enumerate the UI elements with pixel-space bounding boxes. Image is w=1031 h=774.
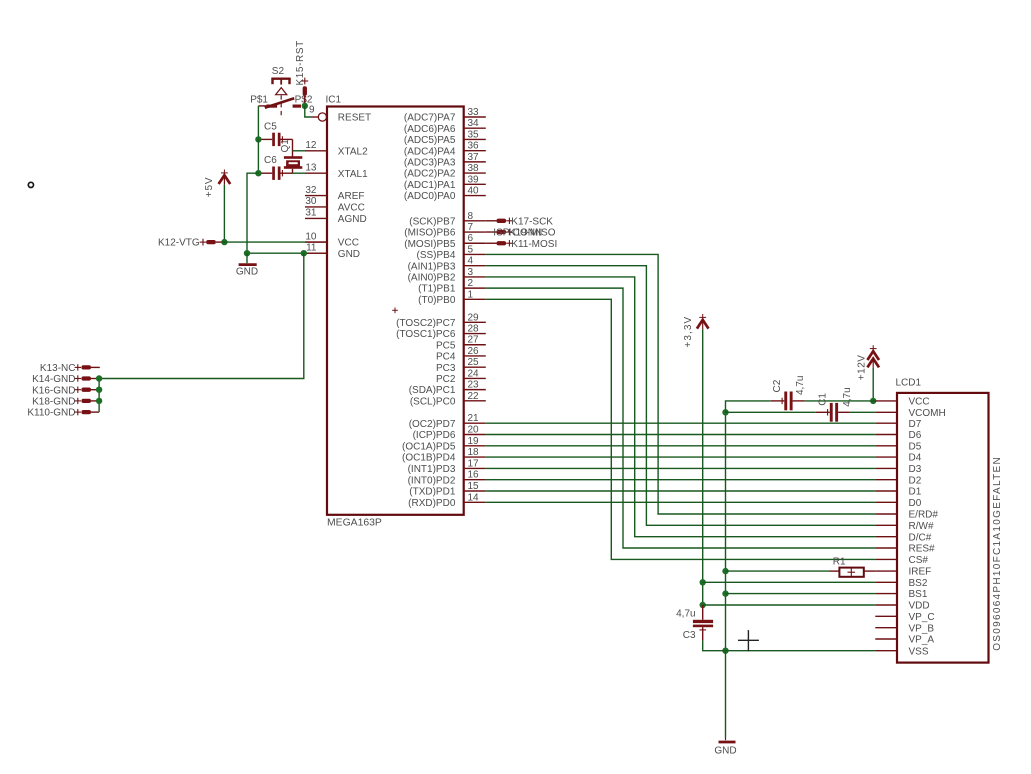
wire BS1 row bbox=[726, 593, 876, 595]
svg-text:BS1: BS1 bbox=[909, 589, 928, 600]
junction node K16 bbox=[96, 387, 102, 393]
svg-text:AVCC: AVCC bbox=[338, 203, 365, 214]
resistor R1 label bbox=[833, 556, 846, 567]
svg-text:R/W#: R/W# bbox=[909, 521, 934, 532]
svg-text:D2: D2 bbox=[909, 475, 922, 486]
svg-text:4,7u: 4,7u bbox=[676, 608, 695, 619]
wire VDD row bbox=[703, 604, 876, 606]
wire PD0 to LCD D0 bbox=[486, 501, 876, 503]
svg-text:(TOSC2)PC7: (TOSC2)PC7 bbox=[396, 318, 456, 329]
resistor R1 bbox=[839, 568, 863, 577]
pin lines K14/K16/K18/K110 bbox=[91, 379, 99, 413]
svg-text:(MISO)PB6: (MISO)PB6 bbox=[404, 228, 456, 239]
LCD1 pin stubs bbox=[875, 401, 897, 651]
svg-text:PC3: PC3 bbox=[436, 363, 456, 374]
svg-text:9: 9 bbox=[309, 105, 315, 116]
svg-text:VCC: VCC bbox=[338, 238, 359, 249]
svg-text:(ADC3)PA3: (ADC3)PA3 bbox=[404, 157, 456, 168]
svg-text:XTAL1: XTAL1 bbox=[338, 169, 368, 180]
svg-text:(SDA)PC1: (SDA)PC1 bbox=[409, 385, 456, 396]
svg-text:30: 30 bbox=[305, 196, 317, 207]
wire PD2 to LCD D2 bbox=[486, 479, 876, 481]
svg-text:E/RD#: E/RD# bbox=[909, 510, 939, 521]
capacitor C3 label bbox=[683, 630, 696, 641]
svg-text:+12V: +12V bbox=[856, 355, 867, 381]
svg-text:(ADC5)PA5: (ADC5)PA5 bbox=[404, 135, 456, 146]
wire XTAL2 bbox=[293, 150, 306, 152]
svg-text:R1: R1 bbox=[833, 556, 846, 567]
svg-text:C2: C2 bbox=[772, 379, 783, 392]
svg-text:D4: D4 bbox=[909, 453, 922, 464]
svg-text:VCC: VCC bbox=[909, 397, 930, 408]
svg-text:+3,3V: +3,3V bbox=[683, 316, 694, 348]
svg-text:VCOMH: VCOMH bbox=[909, 408, 946, 419]
svg-text:K11-MOSI: K11-MOSI bbox=[511, 239, 557, 250]
svg-text:(RXD)PD0: (RXD)PD0 bbox=[408, 498, 456, 509]
svg-text:VP_C: VP_C bbox=[909, 612, 935, 623]
wire C6 to GND rail bbox=[247, 173, 258, 253]
svg-text:D0: D0 bbox=[909, 498, 922, 509]
connector K12-VTG pin bbox=[206, 240, 221, 244]
svg-text:4,7u: 4,7u bbox=[842, 387, 853, 406]
wire PD7 to LCD D7 bbox=[486, 422, 876, 424]
svg-text:(TXD)PD1: (TXD)PD1 bbox=[409, 487, 456, 498]
wire IREF row bbox=[726, 570, 876, 572]
connector K15-RST label bbox=[295, 40, 306, 85]
wire PB3 to LCD R/W# bbox=[486, 266, 876, 526]
svg-text:13: 13 bbox=[305, 162, 317, 173]
connector K15-RST pin bbox=[303, 86, 307, 103]
capacitor C2 value 4,7u bbox=[795, 376, 806, 395]
svg-text:GND: GND bbox=[338, 249, 360, 260]
wire VCC row left segment bbox=[726, 401, 771, 412]
junction node C5-left bbox=[255, 136, 261, 142]
LCD1 value OS096064PH10FC1A10GEFALTEN bbox=[992, 456, 1003, 651]
svg-text:PC4: PC4 bbox=[436, 352, 456, 363]
capacitor C3 value 4,7u bbox=[676, 608, 695, 619]
wire BS2 row bbox=[703, 581, 876, 583]
capacitor C1 label bbox=[818, 393, 829, 406]
svg-text:Q1: Q1 bbox=[280, 139, 291, 153]
svg-text:(INT1)PD3: (INT1)PD3 bbox=[408, 464, 456, 475]
wire C1 to VCOMH pin bbox=[849, 411, 875, 413]
svg-text:(TOSC1)PC6: (TOSC1)PC6 bbox=[396, 329, 456, 340]
LCD module LCD1 box bbox=[896, 378, 989, 663]
connector labels K13/K14/K16/K18/K110 bbox=[27, 363, 75, 419]
LCD1 pin names bbox=[909, 397, 946, 658]
svg-text:PC5: PC5 bbox=[436, 340, 456, 351]
switch S2 left pin bbox=[258, 105, 266, 107]
junction node VSS bbox=[722, 648, 728, 654]
wire VSS row bbox=[726, 650, 876, 652]
junction node K14 bbox=[96, 375, 102, 381]
wire VCC row to pin 10 bbox=[221, 241, 327, 243]
svg-text:K12-VTG: K12-VTG bbox=[158, 238, 200, 249]
switch S2 pin P$1 label bbox=[250, 94, 268, 105]
junction node VCOMH bbox=[722, 409, 728, 415]
junction node +5V/VCC bbox=[221, 239, 227, 245]
IC1 left pin numbers bbox=[305, 105, 317, 254]
power +12V symbol bbox=[867, 345, 879, 368]
connector K11-MOSI label bbox=[511, 239, 557, 250]
svg-text:32: 32 bbox=[305, 185, 317, 196]
svg-text:(OC2)PD7: (OC2)PD7 bbox=[409, 419, 456, 430]
svg-text:K14-GND: K14-GND bbox=[32, 374, 75, 385]
switch S2 actuator dashed line bbox=[280, 95, 282, 116]
svg-text:(T0)PB0: (T0)PB0 bbox=[418, 295, 456, 306]
svg-text:OS096064PH10FC1A10GEFALTEN: OS096064PH10FC1A10GEFALTEN bbox=[992, 456, 1003, 651]
wire C3 to VSS row bbox=[703, 640, 726, 650]
svg-text:(SS)PB4: (SS)PB4 bbox=[416, 250, 455, 261]
switch S2 actuator triangle bbox=[276, 88, 287, 95]
wire K-GND bus vertical bbox=[98, 379, 100, 413]
capacitor C2 bbox=[771, 392, 805, 411]
capacitor C3 bbox=[693, 605, 713, 640]
connector K19-MISO origin cross bbox=[506, 229, 512, 235]
connector K11-MOSI pin bbox=[486, 241, 506, 245]
svg-text:(MOSI)PB5: (MOSI)PB5 bbox=[404, 239, 456, 250]
wire +5V down bbox=[223, 185, 225, 242]
svg-text:IC1: IC1 bbox=[326, 94, 342, 105]
svg-text:C1: C1 bbox=[818, 393, 829, 406]
svg-text:(AIN1)PB3: (AIN1)PB3 bbox=[408, 261, 456, 272]
svg-text:K16-GND: K16-GND bbox=[32, 385, 75, 396]
capacitor C1 bbox=[816, 403, 849, 422]
svg-text:AGND: AGND bbox=[338, 214, 367, 225]
power +3,3V label bbox=[683, 316, 694, 348]
svg-text:XTAL2: XTAL2 bbox=[338, 146, 368, 157]
pin 9 RESET inversion circle bbox=[312, 113, 327, 121]
junction node GND-left bbox=[244, 250, 250, 256]
wire net-A vertical bbox=[725, 412, 727, 650]
wire PD5 to LCD D5 bbox=[486, 445, 876, 447]
wire pin11 to K14 bus bbox=[99, 253, 304, 378]
pin K13-NC stub bbox=[91, 366, 100, 368]
svg-text:K18-GND: K18-GND bbox=[32, 397, 75, 408]
connector K12-VTG label bbox=[158, 238, 200, 249]
capacitor C5 bbox=[258, 133, 292, 146]
svg-text:MEGA163P: MEGA163P bbox=[327, 518, 382, 529]
wire PB2 to LCD D/C# bbox=[486, 277, 876, 537]
IC1 right pin stubs bbox=[464, 117, 486, 502]
switch S2 pin P$2 label bbox=[295, 94, 313, 105]
connector K17-SCK pin bbox=[486, 219, 506, 223]
capacitor C5 label bbox=[264, 122, 277, 133]
svg-text:(ADC0)PA0: (ADC0)PA0 bbox=[404, 191, 456, 202]
svg-text:(SCL)PC0: (SCL)PC0 bbox=[410, 396, 456, 407]
svg-text:GND: GND bbox=[236, 267, 258, 278]
svg-text:12: 12 bbox=[305, 140, 317, 151]
svg-text:(ADC7)PA7: (ADC7)PA7 bbox=[404, 113, 456, 124]
marker ring (left margin) bbox=[28, 182, 33, 187]
connector K15-RST origin cross bbox=[301, 78, 308, 85]
svg-text:BS2: BS2 bbox=[909, 578, 928, 589]
crystal Q1 bbox=[284, 139, 302, 173]
connector K19-MISO pin bbox=[486, 230, 506, 234]
IC1 left pin stubs bbox=[305, 151, 327, 253]
junction node VDD bbox=[700, 602, 706, 608]
wire +3,3V rail down bbox=[702, 329, 704, 605]
svg-text:D1: D1 bbox=[909, 487, 922, 498]
junction node C6-left bbox=[255, 170, 261, 176]
wire +12V down to VCC row bbox=[872, 368, 874, 401]
svg-text:VP_A: VP_A bbox=[909, 635, 935, 646]
svg-text:D6: D6 bbox=[909, 430, 922, 441]
capacitor C2 label bbox=[772, 379, 783, 392]
capacitor C6 label bbox=[264, 155, 277, 166]
junction node GND-right bbox=[301, 250, 307, 256]
crystal Q1 label bbox=[280, 139, 291, 153]
svg-text:10: 10 bbox=[305, 231, 317, 242]
svg-text:(OC1A)PD5: (OC1A)PD5 bbox=[402, 441, 456, 452]
svg-text:D3: D3 bbox=[909, 464, 922, 475]
connector K17-SCK label bbox=[511, 216, 553, 227]
connector K12-VTG origin cross bbox=[200, 239, 207, 246]
svg-text:D7: D7 bbox=[909, 419, 922, 430]
svg-text:PC2: PC2 bbox=[436, 374, 456, 385]
svg-text:(T1)PB1: (T1)PB1 bbox=[418, 284, 456, 295]
wire PB0 to LCD CS# bbox=[486, 299, 876, 559]
svg-text:CS#: CS# bbox=[909, 555, 929, 566]
capacitor C6 bbox=[258, 167, 292, 180]
power +5V label bbox=[204, 177, 215, 198]
svg-text:D/C#: D/C# bbox=[909, 532, 932, 543]
power +5V symbol bbox=[219, 170, 231, 185]
switch S2 contacts bbox=[265, 98, 301, 107]
junction node BS2 bbox=[700, 579, 706, 585]
svg-text:IREF: IREF bbox=[909, 567, 932, 578]
svg-text:K13-NC: K13-NC bbox=[40, 363, 76, 374]
svg-text:RES#: RES# bbox=[909, 544, 936, 555]
capacitor C1 value 4,7u bbox=[842, 387, 853, 406]
wire RST to pin 9 bbox=[305, 106, 312, 117]
svg-text:C6: C6 bbox=[264, 155, 277, 166]
svg-text:C5: C5 bbox=[264, 122, 277, 133]
svg-text:4,7u: 4,7u bbox=[795, 376, 806, 395]
wire C5 down to C6 bbox=[257, 139, 259, 173]
wire PD3 to LCD D3 bbox=[486, 467, 876, 469]
svg-text:VDD: VDD bbox=[909, 601, 930, 612]
svg-text:11: 11 bbox=[306, 242, 317, 253]
svg-text:K17-SCK: K17-SCK bbox=[511, 216, 553, 227]
wire PD6 to LCD D6 bbox=[486, 434, 876, 436]
power +12V label bbox=[856, 355, 867, 381]
switch S2 cap bracket bbox=[271, 78, 290, 85]
wire PD4 to LCD D4 bbox=[486, 456, 876, 458]
svg-text:K19-MISO: K19-MISO bbox=[509, 228, 556, 239]
svg-text:RESET: RESET bbox=[338, 113, 371, 124]
wire VCOMH row left segment bbox=[726, 411, 816, 413]
wire C2 to VCC pin bbox=[805, 400, 876, 402]
svg-text:VSS: VSS bbox=[909, 646, 929, 657]
power +3,3V symbol bbox=[697, 314, 709, 329]
junction node IREF bbox=[722, 568, 728, 574]
IC U1 (IC1 MEGA163P) box bbox=[326, 94, 464, 528]
svg-text:AREF: AREF bbox=[338, 191, 365, 202]
ground GND (near IC1) bbox=[236, 253, 258, 277]
IC1 origin cross bbox=[392, 308, 398, 314]
svg-text:+5V: +5V bbox=[204, 177, 215, 198]
svg-text:(ADC2)PA2: (ADC2)PA2 bbox=[404, 169, 456, 180]
IC1 right pin names bbox=[396, 113, 456, 509]
wire PD1 to LCD D1 bbox=[486, 490, 876, 492]
svg-text:P$1: P$1 bbox=[250, 94, 268, 105]
svg-text:(OC1B)PD4: (OC1B)PD4 bbox=[402, 453, 456, 464]
svg-text:(ADC6)PA6: (ADC6)PA6 bbox=[404, 124, 456, 135]
svg-text:GND: GND bbox=[714, 745, 736, 756]
wire XTAL1 bbox=[293, 172, 306, 174]
ground GND (bottom) bbox=[714, 738, 736, 757]
svg-text:(ADC4)PA4: (ADC4)PA4 bbox=[404, 146, 456, 157]
svg-text:LCD1: LCD1 bbox=[896, 378, 922, 389]
svg-text:(ICP)PD6: (ICP)PD6 bbox=[413, 430, 456, 441]
junction node K18 bbox=[96, 398, 102, 404]
svg-text:S2: S2 bbox=[272, 66, 285, 77]
wire VSS to GND bbox=[725, 651, 727, 738]
wire PB4 to LCD E/RD# bbox=[486, 254, 876, 514]
junction node RST (S2/K15/pin9) bbox=[302, 103, 308, 109]
switch S2 label bbox=[272, 66, 285, 77]
connector K17-SCK origin cross bbox=[506, 218, 512, 224]
connector K11-MOSI origin cross bbox=[506, 240, 512, 246]
svg-text:(INT0)PD2: (INT0)PD2 bbox=[408, 475, 456, 486]
svg-text:C3: C3 bbox=[683, 630, 696, 641]
connector K19-MISO label bbox=[509, 228, 556, 239]
svg-text:(SCK)PB7: (SCK)PB7 bbox=[409, 216, 456, 227]
svg-text:D5: D5 bbox=[909, 441, 922, 452]
svg-text:K110-GND: K110-GND bbox=[27, 408, 75, 419]
net label ISP-CONN (overlapping) bbox=[493, 228, 542, 239]
IC1 left pin names bbox=[338, 113, 371, 260]
IC1 right pin numbers bbox=[468, 107, 480, 503]
wire PB1 to LCD RES# bbox=[486, 288, 876, 548]
junction node +12V/VCC bbox=[870, 398, 876, 404]
svg-text:(ADC1)PA1: (ADC1)PA1 bbox=[404, 180, 456, 191]
wire GND row to pin 11 bbox=[247, 252, 327, 254]
svg-text:VP_B: VP_B bbox=[909, 623, 935, 634]
connector pins K13-K110 bbox=[81, 365, 91, 414]
svg-text:31: 31 bbox=[305, 208, 317, 219]
LCD1 origin cross bbox=[738, 630, 759, 651]
svg-text:(AIN0)PB2: (AIN0)PB2 bbox=[408, 273, 456, 284]
connector origin crosses K13-K110 bbox=[75, 364, 81, 415]
junction node BS1 bbox=[722, 590, 728, 596]
wire S2 P$1 down to C5 bbox=[257, 106, 259, 139]
